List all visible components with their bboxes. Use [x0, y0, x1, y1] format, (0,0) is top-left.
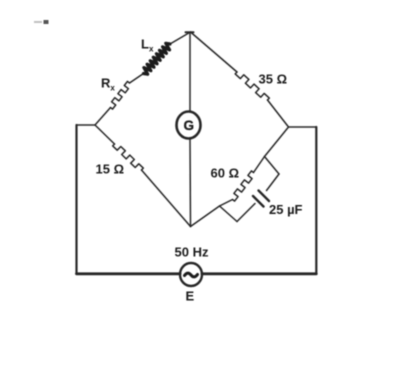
wire 35 ohm to right node [268, 100, 289, 127]
resistor 35 ohm [235, 72, 269, 100]
resistor Rx [111, 81, 130, 109]
wire top node to galvanometer [189, 32, 191, 111]
wire right vertex to capacitor [267, 174, 280, 191]
galvanometer G circle [177, 112, 201, 139]
wire left vertex to bottom node [191, 206, 220, 227]
wire Rx to Lx [130, 74, 144, 84]
wire top vertex to right vertex of cap branch [265, 157, 280, 175]
stray mark dash [34, 21, 42, 23]
resistor 60 ohm [233, 171, 254, 201]
source E circle [180, 263, 202, 286]
svg-text:60 Ω: 60 Ω [211, 166, 240, 181]
svg-text:15 Ω: 15 Ω [96, 162, 125, 177]
wire right node to parallel section top vertex [265, 127, 289, 157]
svg-text:Lx: Lx [141, 37, 154, 54]
wire Lx to top node [170, 32, 191, 44]
left rail wire [75, 125, 77, 274]
svg-text:G: G [184, 118, 195, 133]
stray mark dot [44, 20, 49, 24]
source tilde symbol [185, 273, 198, 277]
wire top vertex to 60 ohm [254, 157, 265, 173]
top node tick [186, 31, 194, 33]
right stub wire [289, 126, 317, 128]
inductor Lx [144, 43, 171, 74]
svg-text:Rx: Rx [101, 76, 115, 93]
svg-text:E: E [186, 289, 195, 304]
capacitor 25uF plate 1 [259, 191, 270, 202]
right rail wire [315, 127, 317, 274]
wire left node to 15 ohm [95, 125, 115, 144]
bottom rail wire right [202, 272, 316, 275]
wire 60 ohm to left vertex [220, 200, 233, 207]
left stub wire [77, 124, 96, 126]
svg-text:25 µF: 25 µF [269, 202, 303, 217]
wire 15 ohm to bottom node [142, 170, 191, 227]
wire bottom vertex to left vertex [220, 206, 238, 222]
wire top node to 35 ohm [191, 32, 238, 72]
wire capacitor to bottom vertex [237, 204, 255, 222]
resistor 15 ohm [113, 144, 144, 170]
svg-text:35 Ω: 35 Ω [259, 72, 288, 87]
wire left node to Rx [95, 108, 111, 126]
wire galvanometer to bottom node [189, 139, 192, 227]
capacitor 25uF plate 2 [253, 196, 264, 207]
svg-text:50 Hz: 50 Hz [175, 245, 209, 260]
bottom rail wire left [77, 272, 181, 275]
